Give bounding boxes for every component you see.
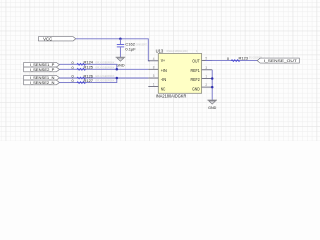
pin 3 REF1 <box>191 66 213 73</box>
svg-text:ERJ-2GE0R00X: ERJ-2GE0R00X <box>96 60 115 64</box>
svg-text:I_SENSE_OUT: I_SENSE_OUT <box>264 58 298 63</box>
svg-text:ERJ-2GE0R00X: ERJ-2GE0R00X <box>96 65 115 69</box>
resistor R125 <box>72 65 115 71</box>
svg-text:I_SENSE2_N: I_SENSE2_N <box>30 80 55 85</box>
svg-text:1: 1 <box>205 75 207 79</box>
pin 5 -IN <box>148 74 166 82</box>
svg-text:V+: V+ <box>161 58 166 63</box>
port I_SENSE2_P <box>24 67 60 72</box>
svg-text:2: 2 <box>205 83 207 87</box>
wire row2 (I_SENSE2_P to +IN) <box>59 68 148 70</box>
svg-text:INA2180AIDGKR: INA2180AIDGKR <box>156 94 187 99</box>
svg-text:ERJ-2GE0R00X: ERJ-2GE0R00X <box>96 74 115 78</box>
pin 8 +IN <box>148 65 167 72</box>
pin 5 OUT <box>192 57 212 64</box>
svg-text:3: 3 <box>205 66 207 70</box>
capacitor C162 <box>117 42 147 52</box>
wire REF1/REF2/GND net <box>211 70 213 100</box>
resistor R127 <box>72 78 115 84</box>
wire C162 bottom <box>119 47 121 57</box>
svg-text:VCC: VCC <box>43 36 52 41</box>
svg-text:8: 8 <box>153 65 155 69</box>
svg-text:-IN: -IN <box>161 77 167 82</box>
svg-text:5: 5 <box>153 74 155 78</box>
svg-text:NC: NC <box>161 86 166 91</box>
svg-text:R125: R125 <box>84 65 94 70</box>
svg-text:4: 4 <box>153 57 155 61</box>
node GND pin junction <box>211 86 214 89</box>
port I_SENSE1_P <box>24 62 60 67</box>
svg-text:OUT: OUT <box>192 58 200 63</box>
svg-text:ERJ-2GE0R00X: ERJ-2GE0R00X <box>96 79 115 83</box>
ground GND (U13) <box>207 100 217 110</box>
node VCC/C162 junction <box>119 38 122 41</box>
svg-text:+IN: +IN <box>161 68 167 73</box>
wire OUT net <box>206 60 258 62</box>
svg-text:GND: GND <box>192 86 200 91</box>
port VCC <box>38 36 75 41</box>
ground GND (C162) <box>116 57 126 67</box>
svg-text:GRM155R7: GRM155R7 <box>136 42 147 46</box>
svg-text:REF1: REF1 <box>191 68 201 73</box>
wire C162 top <box>119 39 121 44</box>
node -IN junction <box>116 77 119 80</box>
svg-text:0.1µF: 0.1µF <box>125 47 136 52</box>
svg-text:R123: R123 <box>239 55 249 60</box>
wire row4 (I_SENSE2_N to -IN net) <box>59 78 116 83</box>
svg-text:GND: GND <box>116 62 124 67</box>
resistor R126 <box>72 73 115 79</box>
svg-text:REF2: REF2 <box>191 77 201 82</box>
pin 1 NC <box>148 83 165 92</box>
svg-text:5: 5 <box>205 57 207 61</box>
node REF2 junction <box>211 77 214 80</box>
svg-text:U13: U13 <box>156 48 164 53</box>
node +IN junction <box>116 68 119 71</box>
wire VCC rail <box>76 39 150 61</box>
wire row3 (I_SENSE1_N to -IN) <box>59 77 148 79</box>
svg-text:I_SENSE2_P: I_SENSE2_P <box>30 67 55 72</box>
svg-text:INA2180A1ID: INA2180A1ID <box>167 49 189 53</box>
wire row1 (I_SENSE1_P to +IN net) <box>59 64 116 69</box>
svg-text:R127: R127 <box>84 78 94 83</box>
pin 1 REF2 <box>191 75 213 83</box>
port I_SENSE_OUT <box>257 58 299 63</box>
port I_SENSE1_N <box>24 75 60 80</box>
svg-text:GND: GND <box>208 105 216 110</box>
pin 2 GND <box>192 83 212 91</box>
svg-text:1: 1 <box>153 83 155 87</box>
resistor R124 <box>72 60 115 66</box>
op-amp U13 (current sense amplifier) <box>156 48 202 98</box>
port I_SENSE2_N <box>24 80 60 85</box>
pin 4 V+ <box>148 57 165 63</box>
resistor R123 <box>227 55 262 61</box>
